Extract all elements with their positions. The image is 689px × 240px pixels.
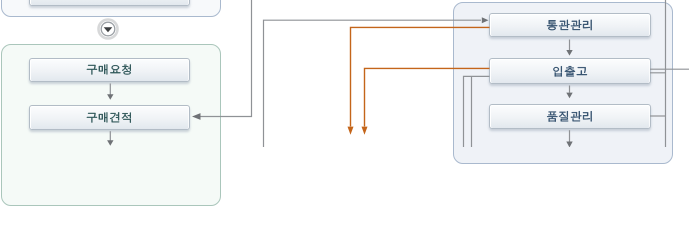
wire: stub from 품질관리 right edge to bus xyxy=(650,115,666,117)
wire: arrow below 품질관리 xyxy=(569,130,571,142)
wire: orange from 입출고 left, down to bottom arrow xyxy=(365,68,490,126)
wire: from 입출고 right edge off right screen edge xyxy=(650,68,689,70)
box 품질관리 xyxy=(489,104,651,129)
wire: two gray drops from 입출고 left edge xyxy=(464,76,490,147)
label 구매견적 xyxy=(87,112,131,122)
label 통관관리 xyxy=(547,20,592,30)
label 구매요청 xyxy=(87,64,131,74)
wire: from bottom edge up then right into 통관관리 (gray elbow) xyxy=(264,20,482,147)
wire: vertical bus at right with stub to 입출고 xyxy=(650,0,666,147)
label 품질관리 xyxy=(547,111,592,121)
wire: arrow 통관관리 -> 입출고 xyxy=(569,40,571,51)
box 구매견적 xyxy=(29,105,190,130)
wire: from top edge down into 구매견적 (gray elbow) xyxy=(200,0,252,117)
arrowhead orange down (right) xyxy=(362,127,368,135)
arrowhead orange down (left) xyxy=(348,127,354,135)
wire: arrow 구매요청 -> 구매견적 xyxy=(109,84,111,95)
box 통관관리 xyxy=(489,13,651,37)
panel: top-left process group (partial) xyxy=(1,0,221,17)
wire: arrow below 구매견적 xyxy=(109,131,111,141)
wire: orange from 통관관리 left, down to bottom arrow xyxy=(351,27,490,126)
box: unlabeled step (cut off at top) xyxy=(29,0,190,6)
arrowhead into 구매견적 xyxy=(192,113,201,120)
label 입출고 xyxy=(553,66,587,76)
panel: logistics group xyxy=(453,2,673,164)
node: circle scroll-down button xyxy=(99,20,118,39)
box 입출고 xyxy=(489,58,651,84)
panel: purchase group xyxy=(1,44,221,206)
arrowhead into 통관관리 xyxy=(482,17,489,23)
wire: arrow 입출고 -> 품질관리 xyxy=(569,86,571,93)
box 구매요청 xyxy=(29,58,190,83)
